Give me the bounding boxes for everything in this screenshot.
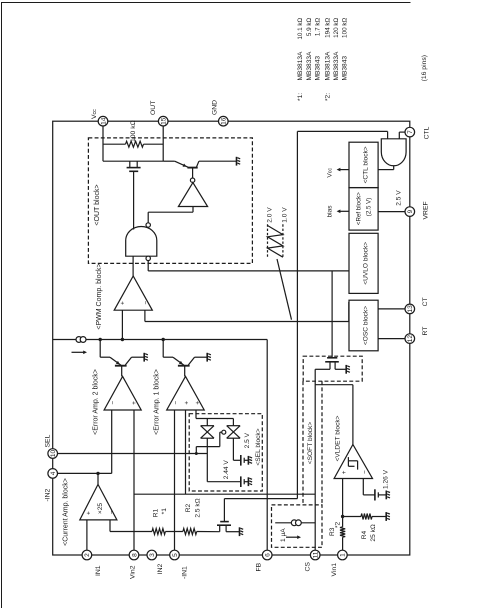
junction dots bus xyxy=(99,338,165,341)
label 2.5V at VREF xyxy=(395,190,402,206)
wire EA2 minus xyxy=(111,410,113,473)
label Vcc internal xyxy=(327,168,334,178)
label R2 xyxy=(185,498,202,517)
current amp U8 xyxy=(80,484,117,520)
pin 15 OUT xyxy=(158,116,168,126)
svg-text:MB3813A: MB3813A xyxy=(324,51,331,81)
label 100 kohm xyxy=(130,120,137,142)
wire OUT pin15 drop xyxy=(162,121,164,161)
wire PWM plus xyxy=(121,310,123,339)
svg-text:7: 7 xyxy=(407,130,414,134)
CTL block label xyxy=(362,146,369,183)
resistor R4 xyxy=(361,514,372,520)
wire VREF xyxy=(378,211,405,213)
UVLO block box xyxy=(349,233,378,293)
wire VLDET minus xyxy=(363,479,374,495)
wire SEL tap xyxy=(195,430,226,455)
wire R4 line xyxy=(343,516,386,518)
label IN2 xyxy=(157,564,164,575)
svg-text:+: + xyxy=(184,401,191,405)
svg-text:+: + xyxy=(120,301,127,305)
wire EA1 plus right xyxy=(195,410,197,419)
svg-text:1.7 kΩ: 1.7 kΩ xyxy=(315,18,322,37)
wire PWM minus xyxy=(144,310,146,321)
junction dot -IN2 xyxy=(96,472,99,475)
PWM comp label xyxy=(96,263,103,329)
svg-text:FB: FB xyxy=(255,562,262,571)
label 2.44V xyxy=(223,460,230,480)
NAND gate U3 xyxy=(126,223,157,261)
svg-text:+: + xyxy=(85,511,92,515)
ground (Q5) xyxy=(240,527,244,536)
footnotes xyxy=(297,18,349,101)
svg-text:IN2: IN2 xyxy=(157,564,164,575)
VLDET block label xyxy=(334,415,341,461)
svg-text:(16 pins): (16 pins) xyxy=(421,55,428,81)
inverter U2 xyxy=(148,178,207,223)
svg-text:<Ref block>: <Ref block> xyxy=(356,192,363,225)
svg-text:4: 4 xyxy=(50,471,57,475)
pin 13 CT xyxy=(405,304,415,314)
sawtooth waveform xyxy=(268,224,292,319)
error amp 1 label xyxy=(154,369,161,435)
svg-text:11: 11 xyxy=(313,551,320,558)
wire NAND in A xyxy=(132,256,134,276)
wire curramp out xyxy=(97,473,99,484)
wire RT xyxy=(378,338,405,340)
transistor Q2 (output PNP) xyxy=(163,161,236,178)
svg-text:OUT: OUT xyxy=(150,101,157,115)
wire FB bus xyxy=(53,339,268,341)
SEL block label xyxy=(255,428,262,465)
wire Vcc-OUT link xyxy=(103,160,163,162)
wire R2 out xyxy=(197,531,220,533)
svg-text:MB3833A: MB3833A xyxy=(306,51,313,81)
svg-text:100 kΩ: 100 kΩ xyxy=(342,18,349,38)
svg-text:<SOFT block>: <SOFT block> xyxy=(307,422,314,465)
transistor Q3 (EA2 PNP) xyxy=(100,340,144,377)
svg-text:<PWM Comp. block>: <PWM Comp. block> xyxy=(96,263,103,329)
label FB xyxy=(255,562,262,571)
svg-text:CS: CS xyxy=(304,562,311,572)
pin 16 GND xyxy=(219,116,229,126)
resistor R3 xyxy=(340,527,345,537)
svg-text:15: 15 xyxy=(161,117,168,125)
svg-text:2.5 V: 2.5 V xyxy=(395,190,402,206)
label Vcc xyxy=(91,109,98,119)
OSC block label xyxy=(362,306,369,345)
svg-text:*2:: *2: xyxy=(324,93,331,101)
label -IN2 xyxy=(44,488,51,501)
svg-text:14: 14 xyxy=(100,117,107,125)
svg-text:CTL: CTL xyxy=(424,126,431,139)
svg-text:GND: GND xyxy=(211,100,218,115)
svg-text:CT: CT xyxy=(422,297,429,306)
label R1 xyxy=(152,508,168,517)
svg-text:R1: R1 xyxy=(152,508,159,517)
svg-text:5: 5 xyxy=(172,553,179,557)
wire Vcc pin14 drop xyxy=(102,121,104,161)
svg-text:MB3813A: MB3813A xyxy=(297,51,304,81)
ground (Q4 collector) xyxy=(207,353,211,362)
svg-text:2.44 V: 2.44 V xyxy=(223,460,230,480)
error amp 1 U7 xyxy=(167,376,205,410)
svg-text:Vin1: Vin1 xyxy=(331,563,338,577)
Vcc output arrow xyxy=(337,168,349,172)
wire Q5 drain gnd xyxy=(226,531,239,533)
resistor R2 xyxy=(183,529,197,535)
label GND xyxy=(211,100,218,115)
svg-text:2.0 V: 2.0 V xyxy=(266,207,273,223)
svg-text:+: + xyxy=(131,401,138,405)
pin 2 IN1 xyxy=(82,550,92,560)
svg-text:194 kΩ: 194 kΩ xyxy=(324,18,331,38)
svg-text:IN1: IN1 xyxy=(95,565,102,576)
ground (Q2 collector) xyxy=(237,157,241,166)
label bias xyxy=(327,205,334,218)
svg-text:8: 8 xyxy=(131,553,138,557)
Ref block label xyxy=(356,192,373,225)
svg-text:6: 6 xyxy=(265,553,272,557)
junction dot divider xyxy=(341,515,344,518)
error amp 2 U6 xyxy=(104,376,141,410)
ground (2.44V ref) xyxy=(248,477,252,486)
wire EA1 plus mid xyxy=(185,410,187,494)
battery 2.44V xyxy=(241,476,248,487)
label Vin1 xyxy=(331,563,338,577)
svg-text:*1:: *1: xyxy=(297,93,304,101)
bias output arrow xyxy=(337,210,349,214)
pin 10 SEL xyxy=(48,449,58,459)
label 2.5V sel xyxy=(244,432,251,448)
label 1.26V xyxy=(383,469,390,489)
OUT block label xyxy=(94,184,101,225)
wire D1 bottom xyxy=(207,438,240,482)
svg-text:2.5 kΩ: 2.5 kΩ xyxy=(195,498,202,517)
wire UVLO line xyxy=(148,270,349,272)
svg-text:9: 9 xyxy=(407,209,414,213)
wire OSC sawtooth out xyxy=(145,302,349,322)
svg-text:−: − xyxy=(173,401,180,405)
label RT xyxy=(422,327,429,336)
label R4 xyxy=(361,524,377,541)
UVLO block label xyxy=(362,242,369,285)
svg-text:(2.5 V): (2.5 V) xyxy=(365,198,372,217)
label CT xyxy=(422,297,429,306)
svg-text:<Error Amp. 1 block>: <Error Amp. 1 block> xyxy=(154,369,161,435)
svg-text:R4: R4 xyxy=(361,530,368,539)
label 1uA xyxy=(280,528,287,542)
label R3 xyxy=(329,521,341,536)
wire diode top xyxy=(196,419,233,426)
svg-text:×25: ×25 xyxy=(97,503,104,515)
CTL block box xyxy=(349,142,378,187)
resistor 100 kohm xyxy=(103,141,163,147)
svg-text:<UVLO block>: <UVLO block> xyxy=(362,242,369,285)
pin 9 VREF xyxy=(405,207,415,217)
SOFT block label xyxy=(307,422,314,465)
label IN1 xyxy=(95,565,102,576)
diode pair D2 xyxy=(227,426,240,439)
label 2.0V xyxy=(266,207,273,223)
svg-text:RT: RT xyxy=(422,327,429,336)
pin 1 Vin1 xyxy=(338,550,348,560)
svg-text:MB3843: MB3843 xyxy=(342,56,349,81)
current arrow CS2 xyxy=(286,535,301,539)
svg-text:SEL: SEL xyxy=(44,434,51,447)
svg-text:2: 2 xyxy=(84,553,91,557)
svg-text:−: − xyxy=(143,301,150,305)
svg-text:-IN2: -IN2 xyxy=(44,488,51,501)
svg-text:MB3833A: MB3833A xyxy=(333,51,340,81)
wire NAND in B (from UVLO line) xyxy=(147,261,149,271)
wire VLDET out xyxy=(315,385,353,445)
svg-text:10.1 kΩ: 10.1 kΩ xyxy=(297,18,304,40)
svg-text:<OUT block>: <OUT block> xyxy=(94,184,101,225)
svg-text:<Error Amp. 2 block>: <Error Amp. 2 block> xyxy=(92,369,99,435)
label 1.0V xyxy=(282,207,289,223)
svg-text:−: − xyxy=(108,510,115,514)
label VREF xyxy=(422,201,429,219)
svg-text:100 kΩ: 100 kΩ xyxy=(130,120,137,142)
svg-text:1.26 V: 1.26 V xyxy=(383,469,390,489)
wire CTL pin feed xyxy=(399,132,404,139)
wire ref line xyxy=(134,493,315,495)
wire D2 bottom xyxy=(233,438,240,460)
current arrow CS1 xyxy=(72,351,88,355)
SOFT mosfet dashed box xyxy=(303,356,362,381)
pin 11 CS xyxy=(310,550,320,560)
svg-text:3: 3 xyxy=(149,553,156,557)
wire EA2 plus / Vin2 xyxy=(133,410,135,555)
svg-text:<CTL block>: <CTL block> xyxy=(362,146,369,183)
label SEL xyxy=(44,434,51,447)
svg-text:Vcc: Vcc xyxy=(327,168,334,178)
Ref block box xyxy=(349,188,378,231)
OSC block box xyxy=(349,300,378,351)
AND gate U4 (CTL) xyxy=(378,139,406,170)
svg-text:Vcc: Vcc xyxy=(91,109,98,119)
pin 4 -IN2 xyxy=(48,469,58,479)
svg-text:+: + xyxy=(341,470,348,474)
svg-text:<Current Amp. block>: <Current Amp. block> xyxy=(63,478,70,546)
wire mid rail xyxy=(296,131,298,498)
label 16 pins xyxy=(421,55,428,81)
pin 8 Vin2 xyxy=(129,550,139,560)
svg-text:5.9 kΩ: 5.9 kΩ xyxy=(306,18,313,37)
wire FB drop xyxy=(266,340,268,556)
label CS xyxy=(304,562,311,572)
battery 2.5V xyxy=(241,455,248,466)
transistor Q1 (output MOSFET) xyxy=(127,161,141,229)
diode pair D1 xyxy=(201,426,214,439)
wire CS line xyxy=(314,369,316,555)
svg-text:−: − xyxy=(362,470,369,474)
SOFT block dashed outline xyxy=(272,381,323,547)
wire SEL xyxy=(53,453,208,455)
svg-text:1 µA: 1 µA xyxy=(280,528,287,542)
pin 6 FB xyxy=(262,550,272,560)
wire gate-A feed xyxy=(297,131,387,139)
pin 3 IN2 xyxy=(147,550,157,560)
ground (Q3 collector) xyxy=(144,353,148,362)
label Vin2 xyxy=(129,565,136,579)
svg-text:25 kΩ: 25 kΩ xyxy=(370,524,377,541)
label -IN1 xyxy=(181,566,188,579)
current source CS2 xyxy=(275,520,315,526)
resistor R1 xyxy=(152,529,165,535)
wire sense line xyxy=(110,531,152,533)
pin 5 -IN1 xyxy=(170,550,180,560)
svg-text:<OSC block>: <OSC block> xyxy=(362,306,369,345)
svg-text:R2: R2 xyxy=(185,503,192,512)
svg-text:1.0 V: 1.0 V xyxy=(282,207,289,223)
IC body outline xyxy=(53,121,410,555)
transistor Q6 (soft MOSFET) xyxy=(315,271,346,369)
VLDET comparator U9 xyxy=(334,445,372,479)
wire IN1 xyxy=(86,520,88,555)
label CTL xyxy=(424,126,431,139)
svg-text:13: 13 xyxy=(407,305,414,313)
SEL block dashed box xyxy=(189,414,262,491)
svg-text:+: + xyxy=(194,401,201,405)
label OUT xyxy=(150,101,157,115)
pin 14 Vcc xyxy=(98,116,108,126)
svg-text:-IN1: -IN1 xyxy=(181,566,188,579)
PWM comparator U5 xyxy=(114,276,152,310)
OUT block dashed box xyxy=(88,138,252,264)
wire curramp minus xyxy=(109,520,111,532)
transistor Q4 (EA1 PNP) xyxy=(163,340,207,377)
svg-text:<VLDET block>: <VLDET block> xyxy=(334,415,341,461)
svg-text:2.5 V: 2.5 V xyxy=(244,432,251,448)
ground (Q6) xyxy=(346,365,350,374)
svg-text:*2: *2 xyxy=(334,521,341,528)
wire EA1 minus / -IN1 xyxy=(174,410,176,555)
svg-text:16: 16 xyxy=(221,117,228,125)
wire CT xyxy=(378,308,405,310)
transistor Q5 (offset MOSFET) xyxy=(217,499,297,532)
wire R1-R2 xyxy=(165,531,183,533)
pin 7 CTL xyxy=(405,127,415,137)
svg-text:120 kΩ: 120 kΩ xyxy=(333,18,340,38)
error amp 2 label xyxy=(92,369,99,435)
ground (R4) xyxy=(386,512,390,521)
svg-text:10: 10 xyxy=(50,450,57,458)
battery 1.26V xyxy=(375,489,386,500)
svg-text:12: 12 xyxy=(407,335,414,343)
svg-text:bias: bias xyxy=(327,205,334,218)
pin 12 RT xyxy=(405,334,415,344)
wire Vin1 divider xyxy=(342,479,344,556)
svg-text:VREF: VREF xyxy=(422,201,429,219)
current source CS1 xyxy=(76,337,86,343)
current amp label xyxy=(63,478,70,546)
svg-text:<SEL block>: <SEL block> xyxy=(255,428,262,465)
svg-text:MB3843: MB3843 xyxy=(315,56,322,81)
wire -IN2 xyxy=(53,472,112,474)
ground (1.26V ref) xyxy=(386,491,390,500)
svg-text:*1: *1 xyxy=(161,508,168,515)
svg-text:−: − xyxy=(110,401,117,405)
svg-text:Vin2: Vin2 xyxy=(129,565,136,579)
svg-text:1: 1 xyxy=(340,553,347,557)
ground (2.5V ref) xyxy=(248,456,252,465)
